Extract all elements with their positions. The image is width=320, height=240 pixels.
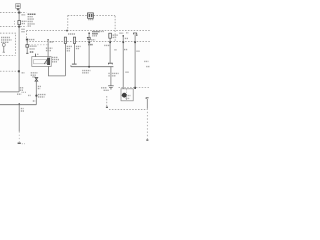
wire W10 [146, 99, 148, 108]
node: W89 top tick [88, 33, 90, 34]
node: W3 top tick [47, 39, 48, 40]
node: W1 crossing tick [18, 12, 20, 14]
label: W5 circuit 3 lines [67, 46, 72, 50]
label: clutch [126, 97, 130, 99]
wire W4 relay output down-right [48, 66, 65, 76]
motor stub [120, 94, 123, 96]
label: terminal id right of W1 [22, 14, 26, 16]
label: motor name [128, 95, 131, 97]
dashed box edge y=33.1 [0, 32, 17, 34]
connector half: W8 top hat [134, 33, 137, 34]
connector X2 box [88, 13, 94, 18]
wire W7 [109, 38, 111, 63]
label: left of splice [28, 94, 31, 96]
relay switch arm [44, 59, 47, 64]
power rail R3 left y=104.7 [0, 104, 36, 106]
dashed continuation of W10 [146, 108, 148, 139]
node: W12 top tick [18, 103, 20, 105]
connector bowtie on W13 [35, 78, 38, 82]
label: dots right of junction [22, 91, 26, 93]
wire W13 compressor feed [35, 81, 37, 105]
label: pigtail wire 2 lines [108, 72, 118, 74]
wire W2 [26, 40, 28, 44]
label: near W2 top [29, 39, 35, 41]
label: texts along W8 [125, 33, 149, 72]
long dashed module boundary D y=30.6 [26, 30, 150, 32]
relay internal contact frame [34, 60, 47, 64]
label: F1 value 2 lines [22, 20, 27, 22]
node: W2 end terminal [26, 53, 28, 54]
dashed drop x=106.8 [106, 96, 108, 107]
decor dashes left of F1 [13, 21, 16, 22]
A/C compressor clutch box [121, 89, 133, 101]
node: W89 tick at G crossing [88, 41, 90, 43]
pin 85 mark [37, 53, 38, 56]
label: relay name below 3 lines [31, 73, 38, 77]
dashed boundary left y=71.2 [0, 70, 19, 72]
node: W9 tick at G crossing [122, 41, 124, 43]
fuse row dashed line y=45 [29, 44, 50, 46]
label: F3 value dark [88, 44, 93, 46]
label: splice cluster dark [92, 32, 99, 36]
fuse F2 [26, 45, 29, 48]
component: generator symbol [2, 43, 5, 52]
label: wire W1 circuit 2 lines [21, 28, 24, 30]
label: W3 circuit 2 lines [46, 47, 53, 49]
node: W8 tick at dashed crossing [134, 87, 136, 89]
label: above R3 corner [33, 100, 35, 102]
label: junction block 3 lines [1, 38, 12, 43]
fuse F3 bar [87, 37, 89, 39]
dashed continuation of W12 [18, 132, 20, 143]
dashed junction block right edge [15, 35, 17, 56]
wire W5 [64, 43, 66, 76]
wire W12 [18, 105, 20, 132]
pin 86 tick [35, 54, 37, 57]
label: right of splice 2 lines [38, 94, 46, 96]
label: under R2 [17, 93, 21, 95]
relay coil [47, 58, 50, 65]
label: G109 name 2 lines [101, 87, 107, 89]
node: connector blob W2 top [26, 39, 28, 41]
dashed edge E vertical x=115.1 [114, 16, 116, 41]
dashed drop x=26.5 [26, 31, 28, 39]
label: W9 texts [114, 33, 128, 50]
label: under rail 2 lines [82, 71, 90, 73]
power rail R2 left y=91.9 [0, 91, 19, 93]
connector half: W10 hat [146, 98, 149, 99]
connector half: W7 end hat [108, 63, 112, 64]
fuse F1 [18, 21, 21, 25]
node: W9 start tick [123, 35, 125, 36]
node: W10 dashed end tick [146, 139, 148, 140]
label: W3 terminal [50, 41, 54, 43]
dashed divider inside clutch box [126, 89, 128, 100]
node: W7 tick at G crossing [109, 41, 111, 43]
dashed harness line bottom-right y=109.6 [109, 109, 147, 111]
node: D junction tick x=67 [66, 30, 68, 32]
ground symbol G109 [108, 86, 114, 89]
label: fuse block title block [28, 14, 36, 26]
dashed compressor boundary y=87.7 [119, 87, 151, 89]
wire W6 [74, 43, 76, 63]
dashed box edge y=26.6 [0, 26, 26, 28]
wire W2b [26, 47, 28, 53]
label: W8 top mark [136, 34, 137, 36]
label: under G left of W7 [104, 44, 110, 46]
battery B+ terminal box [16, 4, 21, 11]
connector half: W6 end bar [72, 63, 77, 65]
label: left of F4 [101, 30, 104, 32]
dashed line G right y=41.6 [27, 40, 151, 42]
node: W12 dashed end tick [18, 143, 21, 145]
wire W3 relay coil feed [47, 40, 49, 56]
fuse FA [64, 37, 66, 43]
label: X2 name [88, 19, 93, 21]
label: right of y71 junction [22, 72, 25, 74]
dashed junction block bottom edge [0, 54, 16, 56]
wire W8 [134, 34, 136, 87]
fuse FB [73, 37, 75, 43]
label: relay pins right 3 lines [52, 57, 60, 61]
node: W1 crossing tick 2 [18, 26, 20, 28]
label: W6 circuit 2 lines [76, 46, 81, 48]
label: F2 value [30, 45, 37, 47]
node: dashed drop end tick [106, 107, 108, 108]
label: W2 circuit 2 lines [30, 48, 36, 50]
motor M symbol [122, 93, 127, 98]
ground rail R1 [71, 66, 114, 68]
label: F3 right [91, 39, 95, 41]
node: W8 tick at G crossing [134, 41, 136, 43]
label: F4 value 2 lines [113, 34, 118, 36]
node: W1 tick at y=71.2 crossing [18, 70, 20, 72]
label: under D inside box [68, 33, 76, 35]
wire W1 battery feed vertical [18, 10, 20, 92]
fuse F3 [88, 37, 90, 39]
wire W9 compressor feed [122, 36, 124, 88]
label: W13 circuit 2 lines [38, 85, 41, 87]
node: splice dot S on W13 [35, 95, 37, 97]
ground pigtail from rail [110, 67, 112, 86]
fuse F4 [109, 33, 112, 38]
label: above R2 junction 2 lines [20, 87, 24, 89]
node: junction dot W89/R1 [88, 66, 90, 68]
dashed edge B horizontal y=15.4 [68, 14, 115, 16]
relay K1 box [32, 57, 51, 67]
label: right of W12 end [22, 143, 25, 145]
dashed box edge top-left y=12.6 [0, 12, 26, 14]
wire W89 [88, 33, 90, 66]
dashed edge F vertical x=67.8 [67, 15, 69, 30]
connector half: rail left end tick [70, 65, 72, 66]
label: W12 circuit 2 lines [21, 108, 24, 110]
